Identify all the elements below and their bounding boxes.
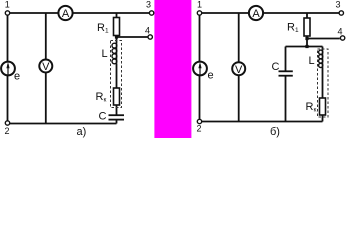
resistor R1 right: [304, 18, 310, 36]
wire: coil to Rk: [322, 68, 324, 99]
wire: R1 branch from top rail: [306, 13, 308, 18]
ammeter A right: [249, 6, 263, 20]
svg-text:e: e: [208, 70, 214, 82]
svg-text:C: C: [272, 61, 280, 73]
svg-text:4: 4: [338, 27, 343, 37]
wire: top rail from terminal 1 to ammeter: [10, 12, 59, 14]
wire: bottom rail: [202, 121, 323, 123]
svg-text:A: A: [252, 8, 260, 20]
wire: bottom rail: [10, 123, 117, 125]
wire: L branch top: [322, 47, 324, 51]
svg-text:б): б): [270, 126, 280, 138]
svg-text:а): а): [77, 126, 87, 138]
terminal 3: [149, 11, 153, 15]
terminal 2: [5, 121, 9, 125]
voltmeter V right: [232, 62, 245, 75]
terminal 3 right: [339, 11, 343, 15]
terminal 1 right: [197, 11, 201, 15]
svg-text:C: C: [99, 111, 107, 123]
source arrow: [7, 64, 9, 75]
wire: left rail terminal 1 to source: [199, 15, 201, 61]
wire: Rk to capacitor: [116, 105, 118, 115]
capacitor C: [109, 115, 125, 119]
wire: top rail from ammeter to terminal 3: [73, 12, 150, 14]
junction dot at tee: [305, 45, 308, 48]
voltmeter V: [39, 60, 52, 73]
capacitor C right: [279, 71, 293, 75]
resistor R1: [114, 18, 120, 36]
terminal 2 right: [197, 119, 201, 123]
junction dot below R1 right: [305, 37, 308, 40]
wire: capacitor to bottom rail: [116, 120, 118, 124]
svg-text:L: L: [309, 55, 315, 67]
wire: coil to Rk: [116, 64, 118, 88]
wire: voltmeter branch upper: [45, 13, 47, 60]
wire: junction to terminal 4: [117, 36, 148, 38]
source e (EMF) circle: [1, 62, 15, 76]
wire: top rail ammeter to terminal 3: [263, 12, 339, 14]
resistor Rk: [114, 88, 120, 105]
svg-text:1: 1: [197, 0, 202, 10]
svg-text:V: V: [235, 64, 243, 76]
resistor Rk right: [320, 98, 326, 115]
wire: R1 branch from top rail: [116, 13, 118, 18]
svg-text:3: 3: [336, 0, 341, 10]
wire: left rail source to terminal 2: [199, 75, 201, 119]
svg-text:L: L: [102, 48, 108, 60]
junction dot below R1: [115, 35, 118, 38]
svg-text:4: 4: [145, 26, 150, 36]
source arrow right: [199, 64, 201, 75]
svg-text:3: 3: [146, 0, 151, 10]
svg-text:2: 2: [5, 126, 10, 136]
svg-text:1: 1: [5, 0, 10, 10]
wire: C branch upper: [285, 47, 287, 72]
inductor L: [112, 43, 117, 64]
wire: voltmeter branch lower: [238, 75, 240, 121]
svg-text:A: A: [62, 8, 70, 20]
wire: junction to terminal 4: [307, 38, 340, 40]
wire: voltmeter branch upper: [238, 13, 240, 62]
svg-text:2: 2: [197, 124, 202, 134]
wire: left rail source down to terminal 2: [7, 75, 9, 120]
terminal 4 right: [340, 36, 344, 40]
wire: top rail terminal 1 to ammeter: [202, 12, 249, 14]
wire: left rail terminal 1 down to source: [7, 15, 9, 61]
wire: R1 bottom down to tee: [306, 36, 308, 47]
wire: tee horizontal C to L: [286, 46, 323, 48]
dashed box around L and Rk: [111, 41, 122, 108]
wire: Rk to bottom rail: [322, 115, 324, 122]
terminal 1: [5, 11, 9, 15]
dashed box around L and Rk right: [318, 49, 329, 117]
ammeter A: [58, 6, 72, 20]
inductor L right: [319, 50, 323, 68]
wire: R1 to junction: [116, 36, 118, 44]
svg-text:e: e: [14, 71, 20, 83]
magenta separator stripe: [154, 0, 191, 138]
wire: voltmeter branch lower: [45, 73, 47, 124]
svg-text:V: V: [42, 61, 50, 73]
terminal 4: [148, 35, 152, 39]
source e (EMF) circle right: [193, 62, 207, 76]
wire: C branch lower: [285, 76, 287, 122]
